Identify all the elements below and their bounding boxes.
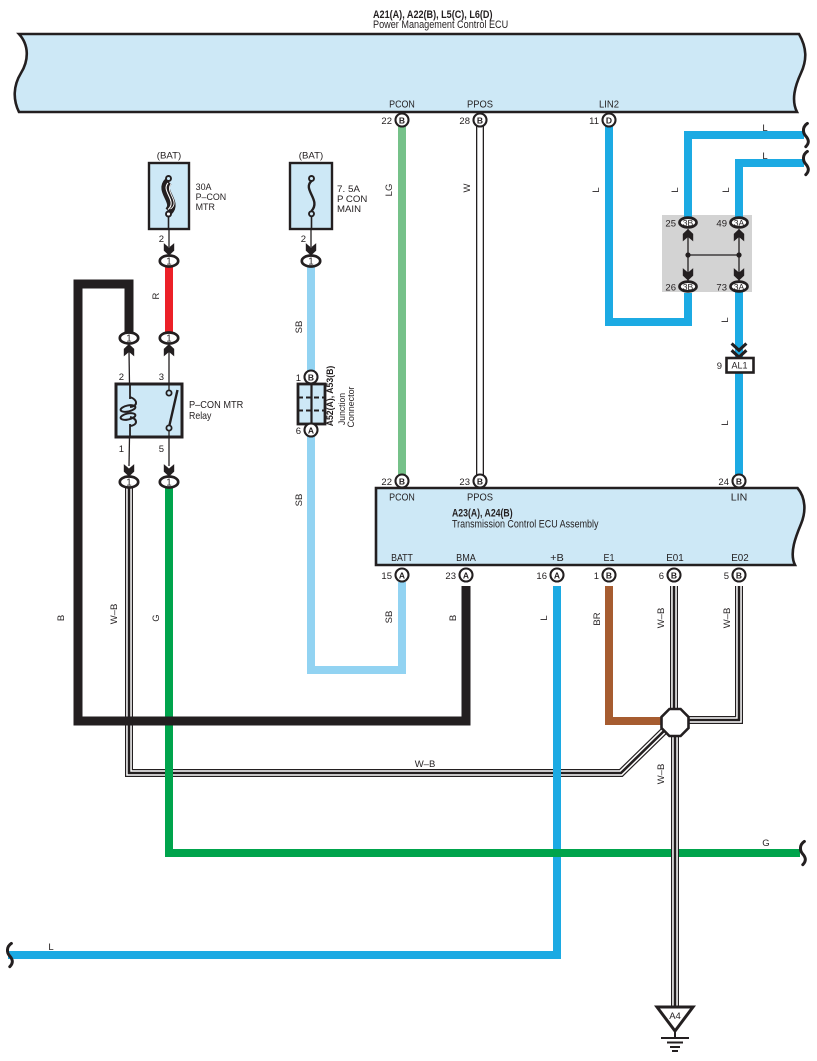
svg-text:1: 1 [166, 334, 171, 345]
terminal 22B of U2 [381, 475, 408, 489]
svg-text:22: 22 [381, 477, 392, 488]
svg-text:Transmission Control ECU Assem: Transmission Control ECU Assembly [452, 519, 599, 531]
pin 2 of F2 [301, 229, 311, 247]
svg-text:2: 2 [301, 234, 306, 245]
svg-text:AL1: AL1 [731, 361, 747, 371]
svg-text:1: 1 [594, 571, 599, 582]
svg-text:28: 28 [459, 116, 470, 127]
label F1 value [196, 182, 227, 213]
terminal B of junction connector [296, 371, 318, 385]
svg-text:W–B: W–B [722, 608, 733, 629]
svg-text:B: B [606, 571, 612, 581]
terminal 28B of U1 [459, 114, 486, 128]
svg-text:PPOS: PPOS [467, 99, 493, 111]
label F2 value [337, 184, 367, 215]
wire W-B E01 to octagon [670, 586, 678, 712]
svg-text:11: 11 [589, 116, 599, 127]
terminal 11D of U1 [589, 114, 615, 128]
terminal 23B of U2 [459, 475, 486, 489]
svg-text:B: B [399, 477, 405, 487]
connector oval 1 below F2 [302, 256, 320, 268]
svg-text:3: 3 [159, 372, 164, 383]
fuse F2 7.5A P CON MAIN [290, 163, 332, 229]
wire L 3A-73 to AL1 [735, 292, 743, 359]
svg-text:BMA: BMA [456, 552, 476, 564]
arrow into oval below relay pin5 [164, 465, 174, 476]
connector oval 1 below relay pin5 [160, 477, 178, 489]
svg-text:B: B [56, 615, 67, 621]
svg-text:PCON: PCON [389, 99, 415, 111]
gray junction block J/B [662, 215, 752, 292]
svg-text:1: 1 [166, 478, 171, 489]
svg-text:G: G [762, 838, 769, 849]
wire W-B octagon to ground A4 [671, 735, 679, 1007]
wire L LIN2 to 3B-26 [609, 126, 688, 322]
wire L top right lower [739, 163, 804, 217]
svg-text:A52(A), A53(B): A52(A), A53(B) [325, 366, 336, 427]
svg-text:15: 15 [381, 571, 392, 582]
svg-text:(BAT): (BAT) [299, 151, 323, 162]
wire BR E1 to octagon [609, 586, 663, 721]
fuse F1 30A P-CON MTR [149, 163, 189, 229]
svg-text:3A: 3A [734, 219, 745, 228]
svg-text:W–B: W–B [415, 759, 436, 770]
svg-text:MTR: MTR [196, 202, 215, 213]
svg-text:L: L [762, 123, 767, 134]
label junction connector [325, 366, 357, 428]
svg-text:23: 23 [445, 571, 456, 582]
ECU box U2: Transmission Control ECU Assembly [376, 488, 804, 565]
connector oval 1 below relay pin1 [120, 477, 138, 489]
svg-text:PCON: PCON [389, 492, 415, 504]
svg-text:B: B [477, 477, 483, 487]
junction connector A52/A53 [298, 384, 325, 424]
ground A4 [657, 1007, 693, 1051]
svg-text:L: L [720, 420, 731, 425]
svg-text:SB: SB [384, 611, 395, 624]
svg-text:2: 2 [119, 372, 124, 383]
svg-text:E01: E01 [666, 552, 684, 564]
svg-text:R: R [151, 292, 162, 299]
arrow into oval below relay pin1 [124, 465, 134, 476]
connector oval 1 below F1 [160, 256, 178, 268]
wire W PPOS to PPOS [476, 126, 484, 475]
svg-text:E02: E02 [731, 552, 749, 564]
svg-text:W: W [462, 183, 473, 192]
terminal 1B E1 [594, 569, 616, 583]
wire SB fuse F2 to junction connector [307, 266, 315, 372]
svg-text:2: 2 [159, 234, 164, 245]
svg-text:L: L [762, 151, 767, 162]
svg-text:23: 23 [459, 477, 470, 488]
svg-text:BR: BR [592, 612, 603, 625]
svg-text:B: B [736, 571, 742, 581]
svg-text:G: G [151, 614, 162, 621]
svg-text:B: B [448, 615, 459, 621]
svg-text:A: A [308, 426, 314, 436]
svg-text:A: A [463, 571, 469, 581]
terminal 49 3A [716, 218, 747, 230]
svg-text:3B: 3B [683, 219, 694, 228]
svg-text:SB: SB [294, 321, 305, 334]
relay pin 5 lead [159, 431, 169, 466]
terminal 25 3B [665, 218, 696, 230]
svg-text:1: 1 [119, 444, 124, 455]
svg-text:B: B [399, 116, 405, 126]
relay pin 1 lead [119, 437, 130, 466]
label RL1 [189, 399, 244, 422]
arrow into 3A-49 [734, 230, 744, 241]
svg-text:22: 22 [381, 116, 392, 127]
svg-text:49: 49 [716, 219, 727, 230]
svg-text:16: 16 [536, 571, 547, 582]
relay RL1 P-CON MTR Relay [116, 384, 182, 437]
svg-text:A: A [399, 571, 405, 581]
arrow into connector below F1 [164, 244, 174, 255]
arrow into oval above relay pin2 [124, 345, 134, 356]
svg-text:B: B [308, 373, 314, 383]
svg-text:D: D [606, 116, 612, 126]
arrow into 3B-25 [683, 230, 693, 241]
svg-text:1: 1 [126, 478, 131, 489]
wire break top right 1 [803, 123, 808, 146]
arrow into connector below F2 [306, 244, 316, 255]
svg-text:3B: 3B [683, 283, 694, 292]
svg-text:26: 26 [665, 283, 676, 294]
arrow into 3A-73 [734, 269, 744, 280]
svg-text:5: 5 [159, 444, 164, 455]
svg-text:5: 5 [724, 571, 729, 582]
svg-text:L: L [591, 187, 602, 192]
wire W-B E02 to octagon [688, 586, 739, 720]
wire G from relay pin5 [169, 486, 800, 853]
svg-text:25: 25 [665, 219, 676, 230]
junction dot [685, 252, 690, 257]
arrow into oval above relay pin3 [164, 345, 174, 356]
terminal 22B of U1 [381, 114, 408, 128]
wire SB junction connector to BATT [311, 434, 402, 670]
svg-text:L: L [670, 187, 681, 192]
svg-text:L: L [721, 187, 732, 192]
wire B from BMA to relay pin2 [78, 284, 466, 721]
terminal 26 3B [665, 282, 696, 294]
relay pin 3 lead [159, 352, 169, 390]
svg-text:24: 24 [718, 477, 729, 488]
svg-text:A: A [554, 571, 560, 581]
svg-text:W–B: W–B [109, 604, 120, 625]
connector oval 1 above relay pin3 [160, 333, 178, 345]
terminal 15A BATT [381, 569, 408, 583]
wire L AL1 to LIN [735, 372, 743, 475]
terminal 16A +B [536, 569, 563, 583]
svg-text:(BAT): (BAT) [157, 151, 181, 162]
J/B internal wire [688, 229, 739, 281]
svg-text:1: 1 [296, 373, 301, 384]
svg-text:B: B [671, 571, 677, 581]
relay pin 2 lead [119, 352, 130, 384]
svg-text:MAIN: MAIN [337, 204, 361, 215]
wire L from +B [8, 586, 557, 955]
label U2 title [452, 508, 599, 531]
svg-text:1: 1 [126, 334, 131, 345]
terminal 23A BMA [445, 569, 472, 583]
label U1 title [373, 9, 508, 31]
terminal 24B of U2 [718, 475, 745, 489]
svg-text:E1: E1 [604, 552, 615, 564]
terminal 6B E01 [659, 569, 681, 583]
svg-text:B: B [477, 116, 483, 126]
svg-text:LG: LG [384, 184, 395, 197]
wire R fuse F1 to relay pin3 [165, 266, 173, 333]
svg-text:L: L [48, 942, 53, 953]
wire break right G [800, 841, 805, 864]
svg-text:Connector: Connector [346, 387, 357, 428]
node: octagon splice [662, 709, 689, 736]
svg-text:9: 9 [717, 361, 722, 372]
junction dot [736, 252, 741, 257]
svg-text:LIN: LIN [731, 492, 748, 504]
wire break top right 2 [803, 151, 808, 174]
svg-text:6: 6 [296, 426, 301, 437]
terminal 5B E02 [724, 569, 746, 583]
wire L top right upper [688, 135, 804, 217]
terminal A of junction connector [296, 424, 318, 438]
svg-text:B: B [736, 477, 742, 487]
svg-text:W–B: W–B [656, 608, 667, 629]
wire break left L [7, 943, 12, 966]
svg-text:Relay: Relay [189, 410, 212, 422]
wire W-B from relay pin1 to octagon [129, 486, 665, 773]
svg-text:L: L [539, 615, 550, 620]
svg-text:+B: +B [550, 552, 564, 564]
svg-text:PPOS: PPOS [467, 492, 493, 504]
svg-text:LIN2: LIN2 [599, 99, 619, 111]
svg-text:A4: A4 [669, 1011, 681, 1022]
svg-text:BATT: BATT [391, 552, 413, 564]
svg-text:Power Management Control ECU: Power Management Control ECU [373, 19, 508, 31]
pin 2 of F1 [159, 229, 169, 247]
svg-text:1: 1 [166, 257, 171, 268]
svg-text:SB: SB [294, 494, 305, 507]
svg-text:3A: 3A [734, 283, 745, 292]
wire LG PCON to PCON [398, 126, 406, 475]
arrow into 3B-26 [683, 269, 693, 280]
connector oval 1 above relay pin2 [120, 333, 138, 345]
svg-text:6: 6 [659, 571, 664, 582]
svg-text:L: L [720, 317, 731, 322]
svg-text:W–B: W–B [656, 764, 667, 785]
ECU box U1: Power Management Control ECU [15, 34, 806, 112]
terminal 73 3A [716, 282, 747, 294]
in-line connector AL1 [717, 344, 754, 373]
svg-text:73: 73 [716, 283, 727, 294]
svg-text:1: 1 [308, 257, 313, 268]
